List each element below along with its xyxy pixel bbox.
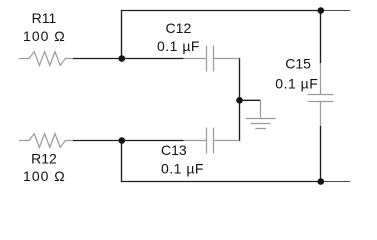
svg-text:R12: R12 xyxy=(31,150,57,166)
svg-text:0.1 µF: 0.1 µF xyxy=(157,38,200,54)
svg-text:0.1 µF: 0.1 µF xyxy=(161,160,204,176)
svg-text:R11: R11 xyxy=(32,10,57,26)
svg-text:100 Ω: 100 Ω xyxy=(23,168,66,184)
svg-text:C12: C12 xyxy=(166,20,192,36)
svg-text:C13: C13 xyxy=(161,142,187,158)
svg-text:C15: C15 xyxy=(285,55,311,71)
svg-text:100 Ω: 100 Ω xyxy=(23,28,66,44)
svg-text:0.1 µF: 0.1 µF xyxy=(275,75,318,91)
